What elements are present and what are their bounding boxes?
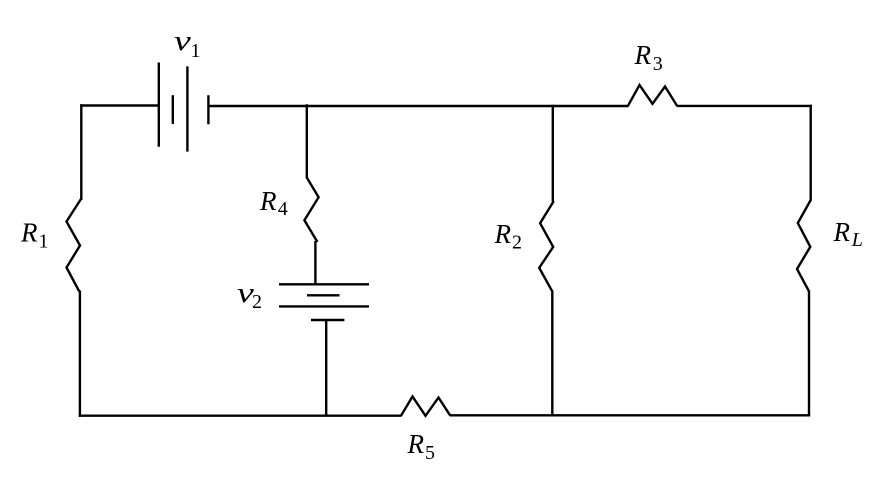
svg-text:2: 2 [252, 291, 262, 313]
wire top rail left segment [80, 104, 159, 106]
svg-text:R: R [259, 186, 277, 216]
svg-text:R: R [833, 217, 851, 247]
wire right rail upper [810, 105, 812, 200]
wire bottom rail left segment [79, 415, 402, 417]
wire R4 branch upper [306, 104, 308, 178]
svg-text:5: 5 [425, 442, 435, 464]
wire left rail upper [80, 104, 82, 200]
resistor R3 [628, 85, 677, 106]
resistor R4 [304, 177, 318, 242]
battery V1 long plate left [158, 63, 160, 147]
wire bottom rail right segment [450, 414, 811, 416]
svg-text:L: L [851, 229, 863, 251]
battery V2 short plate lower [311, 319, 344, 321]
battery V2 short plate upper [307, 294, 340, 296]
wire R4 to V2 [314, 241, 316, 286]
battery V1 short plate left [172, 95, 174, 124]
svg-text:R: R [494, 219, 512, 249]
battery V1 long plate right [186, 66, 188, 151]
wire top rail far right segment [677, 105, 812, 107]
battery V2 long plate top [279, 283, 369, 285]
wire V2 to bottom rail [325, 319, 327, 417]
svg-text:R: R [634, 40, 652, 70]
wire R2 branch upper [552, 105, 554, 202]
resistor RL [797, 200, 811, 292]
battery V1 short plate right [207, 95, 209, 124]
wire right rail lower [808, 291, 810, 417]
wire top rail middle segment [208, 105, 628, 107]
svg-text:1: 1 [39, 231, 49, 253]
svg-text:v: v [174, 25, 191, 57]
svg-text:2: 2 [512, 231, 522, 253]
svg-text:R: R [20, 218, 38, 248]
resistor R1 [67, 199, 82, 292]
resistor R5 [401, 397, 450, 416]
wire left rail lower [79, 291, 81, 417]
battery V2 long plate bottom [279, 305, 369, 307]
svg-text:R: R [407, 429, 425, 459]
wire R2 branch lower [551, 291, 553, 417]
svg-text:3: 3 [653, 53, 663, 75]
resistor R2 [539, 201, 554, 291]
svg-text:4: 4 [278, 198, 288, 220]
svg-text:1: 1 [191, 40, 201, 62]
